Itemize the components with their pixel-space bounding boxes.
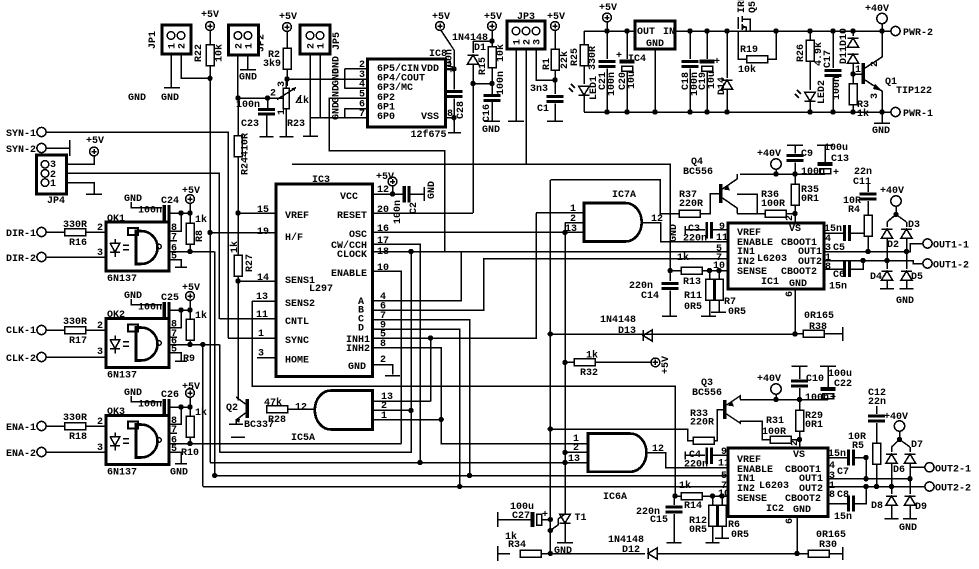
ground — [508, 120, 524, 122]
svg-text:C7: C7 — [837, 467, 849, 478]
svg-text:R22: R22 — [194, 44, 205, 62]
svg-text:18: 18 — [377, 247, 389, 258]
svg-text:100n: 100n — [138, 206, 162, 217]
wire 6P2 row to clock — [329, 98, 445, 251]
svg-text:GND: GND — [793, 505, 811, 516]
svg-text:0R1: 0R1 — [801, 194, 819, 205]
svg-text:6P0: 6P0 — [377, 112, 395, 123]
svg-text:VS: VS — [789, 224, 801, 235]
svg-text:CBOOT2: CBOOT2 — [781, 267, 817, 278]
svg-text:2: 2 — [790, 440, 801, 446]
svg-text:R25: R25 — [570, 48, 581, 66]
svg-text:C28: C28 — [456, 101, 467, 119]
svg-text:7: 7 — [171, 425, 177, 436]
svg-text:1k: 1k — [857, 108, 869, 120]
wire R24 to VREF row — [238, 157, 276, 214]
wire IN1 row left — [215, 475, 728, 477]
wire OK1 pin7 stub — [169, 240, 177, 242]
svg-text:15n: 15n — [828, 449, 846, 460]
svg-text:5: 5 — [171, 252, 177, 263]
svg-text:10k: 10k — [214, 44, 226, 62]
ground — [881, 112, 883, 123]
svg-text:2: 2 — [97, 417, 103, 428]
svg-text:1k: 1k — [679, 480, 691, 492]
wire DIR net down — [214, 252, 216, 476]
svg-text:D: D — [358, 324, 364, 335]
svg-text:R27: R27 — [245, 254, 256, 272]
wire OK1 pin5 to gnd — [169, 260, 181, 268]
wire SENS2 row — [252, 301, 675, 496]
svg-text:SYNC: SYNC — [285, 336, 309, 347]
ground — [280, 136, 294, 138]
svg-text:3n3: 3n3 — [530, 84, 548, 95]
svg-text:C8: C8 — [837, 490, 849, 501]
svg-text:0R5: 0R5 — [684, 302, 702, 313]
svg-text:GND: GND — [239, 73, 257, 84]
svg-text:CBOOT2: CBOOT2 — [785, 494, 821, 505]
svg-text:C15: C15 — [650, 515, 668, 526]
svg-text:C2: C2 — [409, 202, 420, 214]
+5V supply R32 — [651, 358, 660, 367]
svg-text:PWR-1: PWR-1 — [903, 109, 933, 120]
svg-text:VREF: VREF — [285, 211, 309, 222]
wire R23 top — [285, 79, 287, 88]
svg-text:14: 14 — [257, 273, 269, 284]
wire to IC8 pin3 — [286, 78, 367, 80]
svg-text:+5V: +5V — [599, 3, 617, 14]
LED LED2 — [805, 92, 816, 101]
svg-text:VCC: VCC — [340, 192, 358, 203]
resistor R29 0R1 — [796, 410, 804, 431]
wire OK1 pin8 — [169, 213, 181, 231]
svg-text:JP5: JP5 — [332, 32, 343, 50]
wire R22 bus down to HF and ENA stair — [209, 66, 211, 463]
node sense row ch2 — [672, 493, 677, 498]
wire IN2 row left — [203, 486, 728, 488]
svg-text:C17: C17 — [823, 50, 834, 68]
svg-text:6: 6 — [785, 518, 796, 524]
resistor R13 — [681, 267, 702, 274]
svg-text:C13: C13 — [831, 154, 849, 165]
connector JP3 — [507, 12, 545, 49]
wire C24 to node — [171, 212, 190, 214]
connector JP4 — [37, 155, 67, 207]
capacitor C18 — [689, 31, 691, 59]
svg-text:GND: GND — [124, 194, 142, 205]
potentiometer R23 — [270, 81, 309, 130]
svg-text:R8: R8 — [195, 230, 206, 242]
wire D13 sense line — [550, 333, 795, 335]
svg-text:TIP122: TIP122 — [896, 86, 932, 97]
svg-text:10k: 10k — [495, 44, 507, 62]
svg-text:+5V: +5V — [279, 12, 297, 23]
wire IC6A pin13 row — [565, 463, 588, 464]
wire SYN-1 to bus — [46, 132, 228, 338]
svg-text:6N137: 6N137 — [107, 274, 137, 285]
svg-text:2: 2 — [97, 321, 103, 332]
svg-text:GND: GND — [482, 125, 500, 136]
svg-text:16: 16 — [377, 224, 389, 235]
wire syn1 stair row — [210, 462, 565, 464]
node R2/R23/6P4 — [284, 76, 289, 81]
IC2 L6203 — [728, 448, 828, 517]
svg-text:+5V: +5V — [661, 356, 672, 374]
svg-text:R14: R14 — [684, 501, 702, 512]
svg-text:12: 12 — [295, 403, 307, 414]
wire x550 vertical — [549, 180, 551, 554]
svg-text:VDD: VDD — [421, 64, 439, 75]
svg-text:GND: GND — [332, 102, 343, 120]
diode D14 — [726, 31, 728, 78]
wire OK2 pin8 — [169, 310, 181, 328]
terminal PWR-2 — [891, 26, 900, 35]
resistor R26 — [809, 31, 811, 40]
svg-text:OUT2-1: OUT2-1 — [935, 465, 971, 476]
ground — [453, 99, 455, 133]
wire +40V rail2 — [740, 399, 828, 401]
svg-text:R18: R18 — [69, 432, 87, 443]
svg-text:GND: GND — [170, 468, 188, 479]
svg-text:R1: R1 — [542, 58, 553, 70]
svg-text:C23: C23 — [241, 119, 259, 130]
svg-text:D4: D4 — [870, 272, 882, 283]
node junction R22 — [207, 76, 212, 81]
wire CLK stair vertical — [219, 345, 221, 453]
svg-text:D9: D9 — [915, 502, 927, 513]
svg-text:C1: C1 — [537, 104, 549, 115]
wire JP4 pin2 sync net — [67, 173, 220, 318]
diode D1 zener — [473, 41, 492, 53]
svg-text:R15: R15 — [478, 57, 489, 75]
wire sense gnd — [237, 281, 239, 401]
svg-text:VSS: VSS — [421, 112, 439, 123]
svg-text:SYN-1: SYN-1 — [6, 129, 36, 140]
svg-text:GND: GND — [899, 523, 917, 534]
resistor R24 410R — [234, 136, 242, 157]
svg-text:220n: 220n — [684, 460, 708, 471]
svg-text:GND: GND — [554, 546, 572, 557]
wire C26 node — [171, 406, 190, 408]
svg-text:GND: GND — [124, 291, 142, 302]
svg-text:+5V: +5V — [182, 382, 200, 393]
svg-text:1N4148: 1N4148 — [600, 315, 636, 326]
capacitor C2 — [403, 186, 406, 203]
svg-text:100n: 100n — [801, 167, 825, 178]
wire R23 bottom to ground — [285, 109, 287, 137]
svg-text:IC6A: IC6A — [603, 492, 627, 503]
svg-text:DIR-2: DIR-2 — [6, 254, 36, 265]
svg-text:CLK-2: CLK-2 — [6, 354, 36, 365]
svg-text:C27: C27 — [512, 511, 530, 522]
svg-text:1: 1 — [317, 43, 328, 49]
svg-text:CLOCK: CLOCK — [337, 250, 367, 261]
svg-text:JP3: JP3 — [517, 12, 535, 23]
wire OK2 pin5 to gnd — [169, 353, 181, 362]
wire SYNC row — [228, 337, 276, 339]
svg-text:220R: 220R — [679, 199, 703, 210]
svg-text:7: 7 — [359, 109, 365, 120]
svg-text:100R: 100R — [761, 199, 785, 210]
wire OK2 pin7 stub — [169, 336, 177, 338]
ground tick — [231, 436, 245, 438]
svg-text:D6: D6 — [893, 465, 905, 476]
resistor R2 — [283, 48, 291, 69]
wire IC6A pin2 row — [565, 451, 588, 453]
wire CLK bus y=258.5 — [202, 258, 204, 260]
wire JP5 pin2 to gnd — [309, 54, 311, 136]
svg-text:Q5: Q5 — [748, 1, 759, 13]
svg-text:1k: 1k — [677, 252, 689, 264]
svg-text:3: 3 — [97, 248, 103, 259]
svg-text:OUT1-2: OUT1-2 — [933, 261, 969, 272]
IC8 PIC12F675 — [368, 49, 448, 141]
svg-text:D5: D5 — [911, 272, 923, 283]
svg-text:VS: VS — [793, 450, 805, 461]
wire IN2 net vertical — [202, 345, 204, 487]
svg-text:BC556: BC556 — [683, 167, 713, 178]
connector JP2 — [228, 25, 267, 55]
svg-text:D7: D7 — [911, 440, 923, 451]
capacitor C17 — [832, 31, 834, 68]
LED LED1 — [579, 86, 590, 95]
svg-text:GND: GND — [896, 296, 914, 307]
svg-text:+: + — [714, 57, 720, 68]
wire x550 top corner to R37 — [550, 180, 679, 214]
resistor R17 330R — [65, 327, 86, 334]
svg-text:0R165: 0R165 — [804, 311, 834, 322]
wire JP1 pin1 to gnd — [170, 54, 172, 88]
resistor R8 1k — [189, 213, 191, 223]
svg-text:IC3: IC3 — [312, 175, 330, 186]
ground — [547, 120, 563, 122]
svg-text:9: 9 — [719, 222, 725, 233]
svg-text:GND: GND — [872, 126, 890, 137]
svg-text:8: 8 — [829, 490, 835, 501]
svg-text:100n: 100n — [138, 303, 162, 314]
resistor R16 330R — [65, 229, 86, 236]
wire JP1 pin2 — [181, 54, 210, 78]
svg-text:R19: R19 — [740, 45, 758, 56]
svg-text:+40V: +40V — [865, 4, 889, 15]
svg-text:JP1: JP1 — [148, 31, 159, 49]
wire R2 to node — [286, 69, 288, 86]
wire H/F row — [210, 232, 276, 234]
svg-text:7: 7 — [171, 233, 177, 244]
svg-text:10: 10 — [377, 263, 389, 274]
svg-text:6N137: 6N137 — [107, 468, 137, 479]
svg-text:11: 11 — [718, 459, 730, 470]
terminal OUT2-2 — [925, 482, 934, 491]
svg-text:OUT2-2: OUT2-2 — [935, 484, 971, 495]
wire OK1 pin6 DIR out — [169, 251, 215, 253]
svg-text:3: 3 — [97, 443, 103, 454]
svg-text:8: 8 — [825, 262, 831, 273]
svg-text:SYN-2: SYN-2 — [6, 145, 36, 156]
bottom rail gnd — [584, 111, 891, 113]
wire x550 lower vertical — [548, 528, 553, 533]
svg-text:17: 17 — [377, 236, 389, 247]
svg-text:C5: C5 — [833, 243, 845, 254]
svg-text:15n: 15n — [834, 512, 852, 523]
svg-text:100n: 100n — [138, 400, 162, 411]
svg-text:+: + — [830, 393, 836, 404]
svg-text:0R5: 0R5 — [731, 530, 749, 541]
resistor R10 1k — [189, 407, 191, 416]
connector JP5 — [300, 25, 343, 54]
svg-text:330R: 330R — [63, 220, 87, 231]
wire JP3 pin2 down to reset net — [525, 49, 527, 164]
wire JP2 pin1 to gnd — [247, 55, 249, 70]
wire D1 node down to reset row — [472, 84, 474, 214]
svg-text:+5V: +5V — [86, 136, 104, 147]
svg-text:5: 5 — [171, 444, 177, 455]
wire R13 sense row — [668, 268, 673, 273]
resistor R15 — [488, 47, 496, 68]
resistor R22 — [206, 45, 214, 66]
svg-text:+: + — [833, 168, 839, 179]
wire IC5A pin1 row — [372, 419, 442, 421]
svg-text:D12: D12 — [622, 545, 640, 556]
svg-text:15: 15 — [257, 205, 269, 216]
wire IC7A pin2 stub — [565, 223, 583, 233]
svg-text:Q2: Q2 — [226, 403, 238, 414]
node VDD/C28 — [451, 66, 456, 71]
svg-text:9: 9 — [721, 447, 727, 458]
svg-text:OUT: OUT — [637, 27, 655, 38]
svg-text:OUT1-1: OUT1-1 — [933, 241, 969, 252]
ground — [164, 87, 180, 89]
svg-text:D13: D13 — [618, 326, 636, 337]
ground — [303, 135, 318, 137]
svg-text:6N137: 6N137 — [107, 371, 137, 382]
svg-text:R16: R16 — [69, 238, 87, 249]
svg-text:GND: GND — [128, 93, 146, 104]
svg-text:CNTL: CNTL — [285, 317, 309, 328]
svg-text:D2: D2 — [887, 240, 899, 251]
svg-text:IC2: IC2 — [766, 504, 784, 515]
IC1 L6203 — [728, 223, 824, 290]
svg-text:1k: 1k — [195, 310, 207, 322]
wire JP5 pin1 to 6P0 — [319, 54, 321, 118]
ground — [260, 136, 274, 138]
svg-text:IN: IN — [663, 27, 675, 38]
wire JP3 pin1 to gnd — [515, 49, 517, 121]
svg-text:R31: R31 — [766, 416, 784, 427]
wire IC5A pin2 row — [372, 409, 412, 411]
svg-text:R9: R9 — [183, 354, 195, 365]
svg-text:3k9: 3k9 — [263, 58, 281, 70]
wire SYN-2 stub — [46, 147, 70, 149]
svg-text:11: 11 — [716, 233, 728, 244]
ground — [86, 193, 102, 195]
svg-text:C22: C22 — [834, 379, 852, 390]
resistor R35 0R1 — [794, 174, 796, 184]
svg-text:IC7A: IC7A — [612, 190, 636, 201]
wire IC4 gnd — [654, 49, 656, 112]
svg-text:100n: 100n — [607, 72, 618, 96]
capacitor C1 — [547, 95, 564, 103]
wire rail right of IC4 — [675, 30, 891, 32]
resistor R25 — [583, 31, 585, 44]
svg-text:100n: 100n — [393, 200, 404, 224]
ground — [484, 120, 500, 122]
svg-text:C6: C6 — [833, 270, 845, 281]
svg-text:H/F: H/F — [285, 232, 303, 244]
svg-text:GND: GND — [161, 93, 179, 104]
svg-text:ENA-2: ENA-2 — [6, 449, 36, 460]
svg-text:RESET: RESET — [337, 211, 367, 222]
svg-text:T1: T1 — [575, 513, 587, 524]
wire IC7A pin1 stub — [536, 212, 583, 214]
svg-text:GND: GND — [124, 388, 142, 399]
svg-text:0R5: 0R5 — [728, 307, 746, 318]
svg-text:PWR-2: PWR-2 — [903, 28, 933, 39]
svg-text:OSC: OSC — [349, 230, 367, 241]
wire JP2 pin2 to wiper — [237, 55, 239, 98]
svg-text:R17: R17 — [69, 336, 87, 347]
svg-text:2: 2 — [870, 61, 881, 67]
svg-text:GND: GND — [646, 39, 664, 50]
resistor R3 — [849, 84, 857, 105]
svg-text:IC1: IC1 — [761, 277, 779, 288]
svg-text:LED2: LED2 — [817, 80, 828, 104]
wire brake net to R33 — [550, 429, 693, 441]
svg-text:JP4: JP4 — [47, 196, 65, 207]
capacitor C20 10u — [626, 31, 628, 59]
svg-text:3: 3 — [533, 39, 544, 45]
capacitor C21 — [606, 31, 608, 59]
svg-text:R10: R10 — [181, 448, 199, 459]
wire Q4 collector to R36 — [737, 213, 757, 215]
terminal PWR-1 — [891, 107, 900, 116]
wire VREF net R24 — [237, 98, 239, 136]
capacitor C28 — [453, 69, 455, 90]
wire OK3 pin7 stub — [169, 432, 177, 434]
svg-text:10u: 10u — [627, 71, 638, 89]
svg-text:+40V: +40V — [880, 186, 904, 197]
svg-text:330R: 330R — [63, 317, 87, 328]
svg-text:GND: GND — [332, 68, 343, 86]
svg-text:GND: GND — [789, 279, 807, 290]
svg-text:D8: D8 — [871, 501, 883, 512]
svg-text:5: 5 — [171, 345, 177, 356]
svg-text:100n: 100n — [805, 393, 829, 404]
svg-text:10k: 10k — [738, 64, 756, 76]
wire C25 node — [171, 309, 190, 311]
wire JP4 pin3 to +5V — [67, 156, 95, 164]
svg-text:15n: 15n — [829, 282, 847, 293]
svg-text:1k: 1k — [195, 214, 207, 226]
svg-text:D1: D1 — [474, 43, 486, 54]
wire +40V rail1 — [740, 173, 825, 175]
svg-text:GND: GND — [348, 362, 366, 373]
wire — [209, 30, 211, 45]
svg-text:0R5: 0R5 — [689, 525, 707, 536]
terminal OUT2-1 — [925, 463, 934, 472]
svg-text:1: 1 — [50, 179, 56, 190]
svg-text:R11: R11 — [684, 291, 702, 302]
wire diagonal to VDD — [441, 30, 454, 69]
svg-text:R23: R23 — [287, 119, 305, 130]
svg-text:C10: C10 — [806, 374, 824, 385]
ground C2 — [411, 193, 424, 195]
IC8 pin stubs left — [345, 69, 368, 109]
svg-text:2: 2 — [785, 215, 796, 221]
svg-text:DIR-1: DIR-1 — [6, 229, 36, 240]
wire R23 wiper row — [238, 97, 283, 99]
svg-text:2: 2 — [97, 223, 103, 234]
resistor R1 — [551, 49, 559, 70]
